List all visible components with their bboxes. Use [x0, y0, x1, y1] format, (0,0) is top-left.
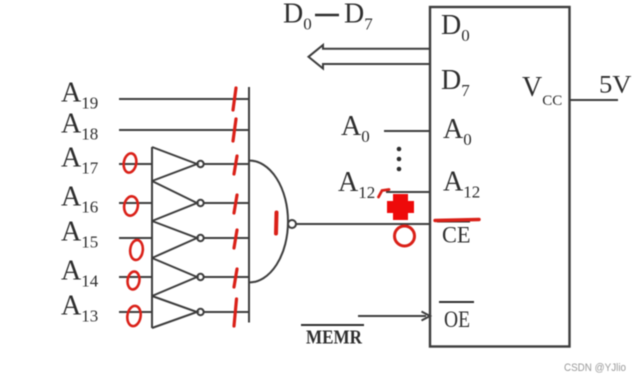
svg-text:CSDN @YJlio: CSDN @YJlio	[564, 362, 626, 374]
svg-text:5V: 5V	[599, 72, 632, 99]
svg-text:CE: CE	[442, 223, 471, 249]
svg-text:MEMR: MEMR	[306, 327, 362, 349]
svg-text:OE: OE	[444, 307, 470, 333]
